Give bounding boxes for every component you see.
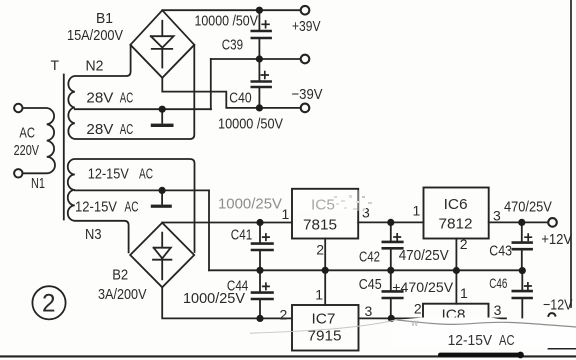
svg-text:AC: AC: [120, 121, 134, 138]
transformer core: [63, 75, 65, 220]
svg-text:1: 1: [282, 206, 290, 222]
svg-text:10000 /50V: 10000 /50V: [218, 115, 283, 132]
svg-text:1: 1: [315, 286, 323, 302]
terminal N1 top (AC input): [14, 104, 22, 112]
svg-text:2: 2: [316, 242, 324, 258]
plus C46: [524, 282, 532, 290]
wire ground rail: [209, 269, 522, 271]
svg-text:AC: AC: [120, 90, 134, 107]
capacitor C46 plates: [513, 291, 532, 298]
wire IC7 pin1 to ground rail: [324, 270, 326, 305]
node C41/C44 midpoint: [256, 267, 263, 274]
capacitor C40 plates: [252, 82, 271, 88]
white band artifact bottom right: [392, 318, 576, 349]
svg-text:1000/25V: 1000/25V: [218, 196, 282, 213]
wire 0V from C39/C40 midpoint down to center tap: [210, 59, 212, 109]
svg-text:C45: C45: [359, 277, 382, 293]
plus C40: [261, 71, 269, 79]
wire -39V rail from bridge B1 negative: [162, 78, 300, 108]
svg-text:3: 3: [494, 302, 502, 318]
polarity plus marks: [261, 20, 533, 290]
capacitor C41 stubs: [259, 223, 261, 271]
svg-text:+39V: +39V: [292, 18, 321, 35]
wire IC8 pin1 to ground rail: [455, 271, 457, 304]
right page border line: [570, 0, 572, 307]
svg-text:AC: AC: [499, 332, 515, 349]
svg-text:7815: 7815: [303, 217, 337, 234]
svg-text:N2: N2: [86, 58, 104, 75]
plus C43: [524, 233, 532, 241]
IC6 7812 box: [424, 188, 489, 239]
plus C44: [262, 282, 270, 290]
svg-text:1: 1: [460, 285, 468, 301]
bottom thick ink segment: [438, 353, 523, 358]
ground symbol at N2 center tap: [161, 109, 163, 123]
wire N2 center tap: [75, 108, 211, 110]
svg-text:12-15V: 12-15V: [75, 199, 117, 216]
svg-text:7812: 7812: [439, 216, 473, 233]
node C43/C46 midpoint: [519, 267, 526, 274]
capacitor C44 stubs: [259, 270, 261, 318]
node C43 top: [518, 219, 525, 226]
bottom page border line: [0, 355, 576, 357]
plus C41: [262, 233, 270, 241]
plus C42: [393, 233, 401, 241]
terminal N1 bottom (AC input): [14, 169, 22, 177]
svg-text:IC6: IC6: [444, 196, 468, 213]
svg-text:B2: B2: [112, 267, 128, 284]
bridge rectifier B2: [130, 223, 194, 287]
svg-text:+12V: +12V: [541, 231, 572, 248]
capacitor C45 plates: [383, 291, 403, 298]
svg-text:C42: C42: [359, 249, 380, 266]
svg-text:−12V: −12V: [543, 296, 573, 313]
wire N3 center tap to ground rail: [208, 190, 210, 270]
svg-text:10000 /50V: 10000 /50V: [195, 13, 259, 30]
terminal +39V: [301, 6, 310, 15]
IC8 box (partially hidden): [423, 304, 489, 340]
svg-text:1: 1: [413, 203, 421, 219]
node N2 center tap: [159, 106, 166, 113]
node +39V rail / C39: [256, 7, 263, 14]
IC5 7815 box: [292, 189, 358, 239]
terminal -39V: [301, 104, 310, 113]
svg-text:+470/25V: +470/25V: [392, 279, 454, 295]
capacitor C41 plates: [252, 244, 273, 250]
node -39V rail / C40: [256, 104, 263, 111]
svg-text:IC7: IC7: [312, 311, 336, 328]
capacitor C43 plates: [513, 243, 532, 250]
svg-text:28V: 28V: [86, 121, 113, 138]
svg-text:N3: N3: [85, 226, 102, 243]
IC pin number labels: [280, 203, 502, 323]
capacitor C42 stubs: [390, 222, 392, 270]
capacitor C39 plates: [252, 31, 271, 38]
svg-text:w: w: [410, 318, 419, 329]
capacitor C43 stubs: [521, 222, 523, 270]
svg-text:AC: AC: [19, 124, 35, 141]
node C44 bottom: [256, 315, 263, 322]
wire +39V top rail: [162, 9, 300, 11]
diode inside B1: [151, 21, 174, 68]
node IC6 pin2 ground: [453, 267, 460, 274]
node C42 top: [387, 219, 394, 226]
capacitor C45 stubs: [390, 270, 392, 318]
capacitor C39 stubs: [258, 10, 260, 59]
svg-text:12-15V: 12-15V: [88, 165, 129, 182]
wire N3 center tap: [75, 189, 209, 191]
svg-text:C40: C40: [229, 90, 251, 107]
wire IC8 output rail: [489, 317, 507, 319]
svg-text:2: 2: [460, 236, 468, 252]
node C45 bottom: [388, 315, 395, 322]
node C41 top: [256, 219, 263, 226]
svg-text:3: 3: [493, 208, 501, 224]
winding N2 outline (28V+28V secondary): [68, 45, 194, 139]
svg-text:28V: 28V: [86, 90, 113, 107]
svg-text:3: 3: [365, 303, 373, 319]
svg-text:1000/25V: 1000/25V: [183, 290, 245, 307]
svg-text:N1: N1: [31, 175, 45, 192]
svg-text:T: T: [51, 57, 60, 73]
svg-text:AC: AC: [139, 165, 153, 182]
node 0V / C39-C40 midpoint: [256, 55, 263, 62]
svg-text:2: 2: [42, 290, 56, 318]
wire IC5 pin2 to ground rail: [324, 239, 326, 271]
band top boundary line: [397, 320, 576, 327]
faint watermark speckles: [334, 195, 372, 210]
bottom-right wire stub to next page: [549, 348, 576, 350]
wire IC6 output to +12V terminal: [489, 221, 549, 223]
node IC5 pin2 ground: [322, 267, 329, 274]
svg-text:C39: C39: [222, 37, 243, 54]
wire IC7 output to IC8 input (-15V rail): [359, 317, 424, 319]
bridge rectifier B1: [130, 10, 194, 78]
faint watermark over IC5: [293, 190, 359, 211]
svg-text:470/25V: 470/25V: [399, 248, 449, 264]
terminal -12V (mostly hidden by white band): [548, 313, 555, 316]
IC7 7915 box: [292, 305, 359, 351]
capacitor C46 stubs: [521, 271, 523, 318]
wire IC6 pin2 to ground rail: [455, 239, 457, 271]
svg-text:−39V: −39V: [292, 86, 323, 103]
terminal +12V: [548, 218, 557, 227]
capacitor C44 plates: [252, 293, 273, 299]
svg-text:C41: C41: [231, 227, 252, 244]
circled 2 page mark: [32, 286, 65, 319]
wire 0V junction to terminal: [211, 58, 301, 60]
wire +unreg rail B2 to IC5 input: [162, 222, 292, 224]
svg-text:2: 2: [414, 301, 422, 317]
capacitor C42 plates: [383, 242, 403, 248]
svg-text:2: 2: [280, 307, 288, 323]
terminal 0V: [301, 55, 310, 64]
node N3 center tap: [159, 187, 166, 194]
svg-text:3A/200V: 3A/200V: [98, 286, 147, 303]
band faint left tail: [250, 320, 397, 333]
svg-text:3: 3: [362, 205, 370, 221]
ground symbol at N3 center tap: [161, 190, 163, 203]
node C42/C45 midpoint: [387, 267, 394, 274]
svg-text:470/25V: 470/25V: [504, 198, 552, 215]
primary winding (AC 220V): [23, 108, 56, 173]
svg-text:12-15V: 12-15V: [448, 332, 493, 349]
svg-text:15A/200V: 15A/200V: [67, 27, 123, 44]
svg-text:AC: AC: [125, 199, 139, 216]
plus C39: [261, 20, 269, 28]
svg-text:B1: B1: [96, 10, 113, 27]
svg-text:220V: 220V: [14, 142, 39, 159]
diode inside B2: [153, 233, 171, 280]
wire -unreg rail B2 negative to IC7 input: [162, 287, 292, 318]
capacitor C40 stubs: [258, 59, 260, 108]
svg-text:C46: C46: [489, 275, 507, 291]
svg-text:C43: C43: [489, 243, 512, 260]
node on bottom segment: [517, 352, 524, 359]
wire IC5 output to IC6 input (+15V rail): [358, 221, 423, 223]
winding N3 outline (12-15V + 12-15V secondary): [68, 159, 195, 252]
